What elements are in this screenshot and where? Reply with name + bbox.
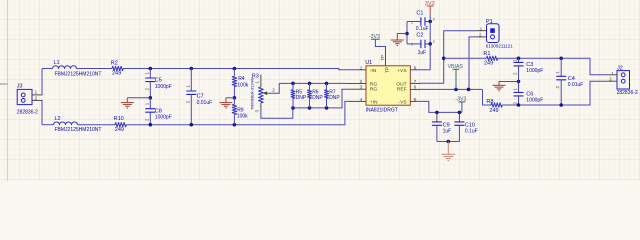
svg-text:TP: TP (380, 55, 385, 61)
node top rail C7 (190, 67, 194, 71)
node OUT/R1 (442, 57, 446, 61)
U1 pin 8 (410, 65, 417, 70)
capacitor C6 (513, 82, 544, 106)
svg-text:2: 2 (433, 40, 435, 44)
wire P1 pin2 to REF vertical (469, 37, 476, 90)
svg-text:0.1uF: 0.1uF (416, 26, 429, 32)
capacitor C9 (432, 112, 451, 141)
J3 pin 2 (32, 96, 43, 101)
svg-text:2: 2 (433, 18, 435, 22)
connector J3 (17, 83, 38, 115)
node RG bottom R5 (291, 106, 295, 110)
node C2 right (428, 42, 432, 46)
svg-text:100k: 100k (237, 82, 248, 88)
wire L2 to R10 (78, 124, 116, 126)
wire U1 REF row (419, 88, 483, 90)
P1 pin 1 (476, 26, 487, 31)
svg-text:249: 249 (489, 108, 498, 114)
wire trimmer bottom to RG bottom rail (261, 108, 293, 118)
svg-text:1000pF: 1000pF (526, 98, 543, 104)
wire REF riser to R8 (483, 89, 492, 105)
node RG bottom R7 (325, 106, 329, 110)
wire RG top rail to U1 pin2 (279, 82, 346, 84)
svg-text:DNP: DNP (312, 95, 323, 101)
node R1 row C4 (559, 57, 563, 61)
svg-text:VBIAS: VBIAS (448, 64, 464, 70)
ground G2 (121, 98, 134, 108)
node C5/C8 midpoint (149, 96, 153, 100)
J2 pin 2 (606, 77, 618, 82)
svg-text:TP: TP (385, 67, 391, 73)
svg-text:1000pF: 1000pF (155, 84, 172, 90)
node RG top R6 (308, 82, 312, 86)
svg-text:1: 1 (411, 43, 413, 47)
power 3V3 (425, 1, 435, 15)
svg-text:1: 1 (411, 20, 413, 24)
node -VS C10 (458, 111, 462, 115)
svg-text:282836-2: 282836-2 (617, 90, 638, 96)
svg-text:INA821IDRGT: INA821IDRGT (366, 107, 398, 113)
node bottom rail R9 (233, 123, 237, 127)
resistor R9 (232, 98, 248, 125)
resistor R5 (291, 83, 307, 108)
svg-text:U1: U1 (365, 60, 372, 66)
svg-text:C7: C7 (197, 93, 204, 99)
svg-text:FBMJ2125HM210NT: FBMJ2125HM210NT (55, 72, 102, 78)
svg-text:FBMJ2125HM210NT: FBMJ2125HM210NT (55, 127, 102, 133)
capacitor C7 (185, 69, 212, 125)
wire J3 pin2 riser to bottom rail (41, 100, 43, 124)
svg-text:L2: L2 (55, 116, 61, 122)
trimmer R3 (250, 74, 276, 113)
sheet border line (7, 0, 9, 181)
svg-text:C2: C2 (416, 32, 423, 38)
svg-text:1uF: 1uF (443, 128, 452, 134)
svg-text:-3V3: -3V3 (455, 97, 466, 103)
wire ground tap left of R9 (226, 97, 235, 99)
capacitor C1 (407, 11, 435, 33)
svg-text:0.01uF: 0.01uF (568, 82, 584, 88)
power VBIAS (448, 64, 464, 89)
U1 TP pin (380, 50, 386, 66)
svg-text:61300211121: 61300211121 (486, 43, 513, 48)
node ground stem (447, 140, 451, 144)
capacitor C4 (555, 58, 583, 105)
node -VS C9 (435, 111, 439, 115)
inductor L2 (54, 116, 102, 133)
resistor R8 (486, 99, 502, 114)
node R4/R9 midpoint (233, 96, 237, 100)
svg-text:REF: REF (397, 86, 407, 92)
ground G5 (441, 142, 455, 161)
sheet zone tick (0, 83, 8, 85)
ground G4 (493, 82, 506, 91)
resistor R6 (308, 83, 324, 108)
wire 3V3 to C1 row (429, 15, 431, 22)
svg-text:C1: C1 (416, 11, 423, 17)
wire R1 row (444, 57, 487, 59)
connector J2 (617, 65, 638, 96)
wire bottom rail J3 to L2 (42, 124, 54, 126)
J2 pin 1 (606, 71, 618, 76)
svg-text:1000pF: 1000pF (155, 115, 172, 121)
capacitor C5 (144, 69, 171, 98)
wire U1 -VS down (416, 101, 462, 112)
svg-text:249: 249 (484, 60, 493, 66)
node bottom rail C8 (149, 123, 153, 127)
node REF VBIAS (454, 88, 458, 92)
svg-text:R8: R8 (486, 99, 493, 105)
wire C1 to C2 right vertical (429, 22, 431, 44)
resistor R10 (114, 116, 127, 133)
node bottom rail C6 (517, 103, 521, 107)
svg-text:L1: L1 (54, 60, 60, 66)
svg-text:0.1uF: 0.1uF (465, 128, 478, 134)
svg-text:-3V3: -3V3 (369, 34, 380, 40)
node top rail R4 (233, 67, 237, 71)
U1 pin 5 (410, 97, 417, 102)
U1 pin 4 (350, 97, 366, 102)
svg-text:R2: R2 (111, 60, 118, 66)
node RG top R7 (325, 82, 329, 86)
svg-text:R1: R1 (483, 51, 490, 57)
U1 pin 7 (410, 79, 420, 84)
ground G3 (219, 98, 232, 108)
svg-text:R4: R4 (238, 76, 245, 82)
wire J3 pin1 riser to top rail (41, 69, 43, 95)
svg-text:282836-2: 282836-2 (17, 110, 38, 116)
node R1 row C3 (517, 57, 521, 61)
capacitor C3 (513, 58, 544, 81)
wire bottom rail R10 to U1 pin4 riser (126, 101, 350, 124)
svg-text:J2: J2 (617, 65, 623, 71)
ground G1 (391, 34, 404, 46)
wire C2 to U1 +VS (416, 44, 430, 70)
connector P1 (486, 19, 513, 49)
node C1 right (428, 20, 432, 24)
wire -3V3 to TP pin (375, 39, 385, 51)
wire top rail R2 to U1 pin1 jog (123, 69, 359, 70)
capacitor C2 (407, 32, 435, 56)
wire ground tap (397, 33, 407, 35)
power -3V3 bottom (455, 97, 466, 113)
U1 pin 2 (346, 79, 366, 84)
svg-text:C9: C9 (443, 122, 450, 128)
node C3/C6 midpoint (517, 80, 521, 84)
J3 pin 1 (32, 90, 43, 95)
node C1/C2 ground tap (405, 32, 409, 36)
wire C9/C10 bottom join (437, 141, 460, 143)
resistor R2 (111, 60, 123, 76)
wire trimmer wiper to RG top rail (268, 83, 279, 93)
svg-text:-VS: -VS (398, 99, 407, 105)
U1 pin 3 (346, 85, 366, 90)
resistor R7 (325, 83, 341, 108)
svg-text:+IN: +IN (370, 99, 378, 105)
node RG top R5 (291, 82, 295, 86)
svg-text:R10: R10 (114, 116, 124, 122)
resistor R1 (483, 51, 497, 66)
wire ground tap left (127, 97, 150, 99)
svg-text:C8: C8 (155, 108, 162, 114)
svg-text:C5: C5 (155, 78, 162, 84)
svg-text:TRIMMER-3224W: TRIMMER-3224W (250, 77, 255, 110)
svg-text:DNP: DNP (329, 95, 340, 101)
svg-text:249: 249 (115, 127, 124, 133)
U1 pin 1 (360, 65, 367, 70)
node top rail C5 (149, 67, 153, 71)
svg-text:1000pF: 1000pF (526, 68, 543, 74)
wire ground tap right (499, 81, 519, 83)
svg-text:J3: J3 (17, 83, 23, 89)
P1 pin 2 (476, 33, 487, 38)
svg-text:RG: RG (370, 86, 378, 92)
wire P1 pin1 to OUT vertical (444, 31, 476, 84)
svg-text:1uF: 1uF (418, 50, 427, 56)
wire RG bottom rail (293, 89, 346, 108)
svg-text:P1: P1 (486, 19, 493, 25)
wire C1/C2 left vertical (406, 22, 408, 44)
capacitor C10 (454, 112, 477, 141)
wire R8 to J2 pin2 (502, 81, 605, 105)
node RG bottom R6 (308, 106, 312, 110)
svg-text:100k: 100k (237, 113, 248, 119)
svg-text:249: 249 (112, 70, 121, 76)
wire U1 OUT (419, 82, 444, 84)
wire top rail J3 to L1 (42, 68, 53, 70)
svg-text:+VS: +VS (397, 68, 407, 74)
resistor R4 (232, 69, 249, 98)
node REF P1 (467, 88, 471, 92)
node bottom rail C7 (190, 123, 194, 127)
svg-text:C10: C10 (465, 122, 475, 128)
inductor L1 (53, 60, 102, 78)
node bottom rail C4 (559, 103, 563, 107)
wire R1 to J2 pin1 (498, 58, 606, 75)
svg-text:DNP: DNP (296, 95, 307, 101)
svg-text:-IN: -IN (370, 68, 377, 74)
op-amp U1 INA821IDRGT (365, 60, 410, 114)
U1 pin 6 (410, 85, 420, 90)
power -3V3 top (369, 34, 380, 40)
capacitor C8 (144, 98, 171, 125)
svg-text:0.01uF: 0.01uF (197, 100, 213, 106)
wire L1 to R2 (77, 68, 113, 70)
